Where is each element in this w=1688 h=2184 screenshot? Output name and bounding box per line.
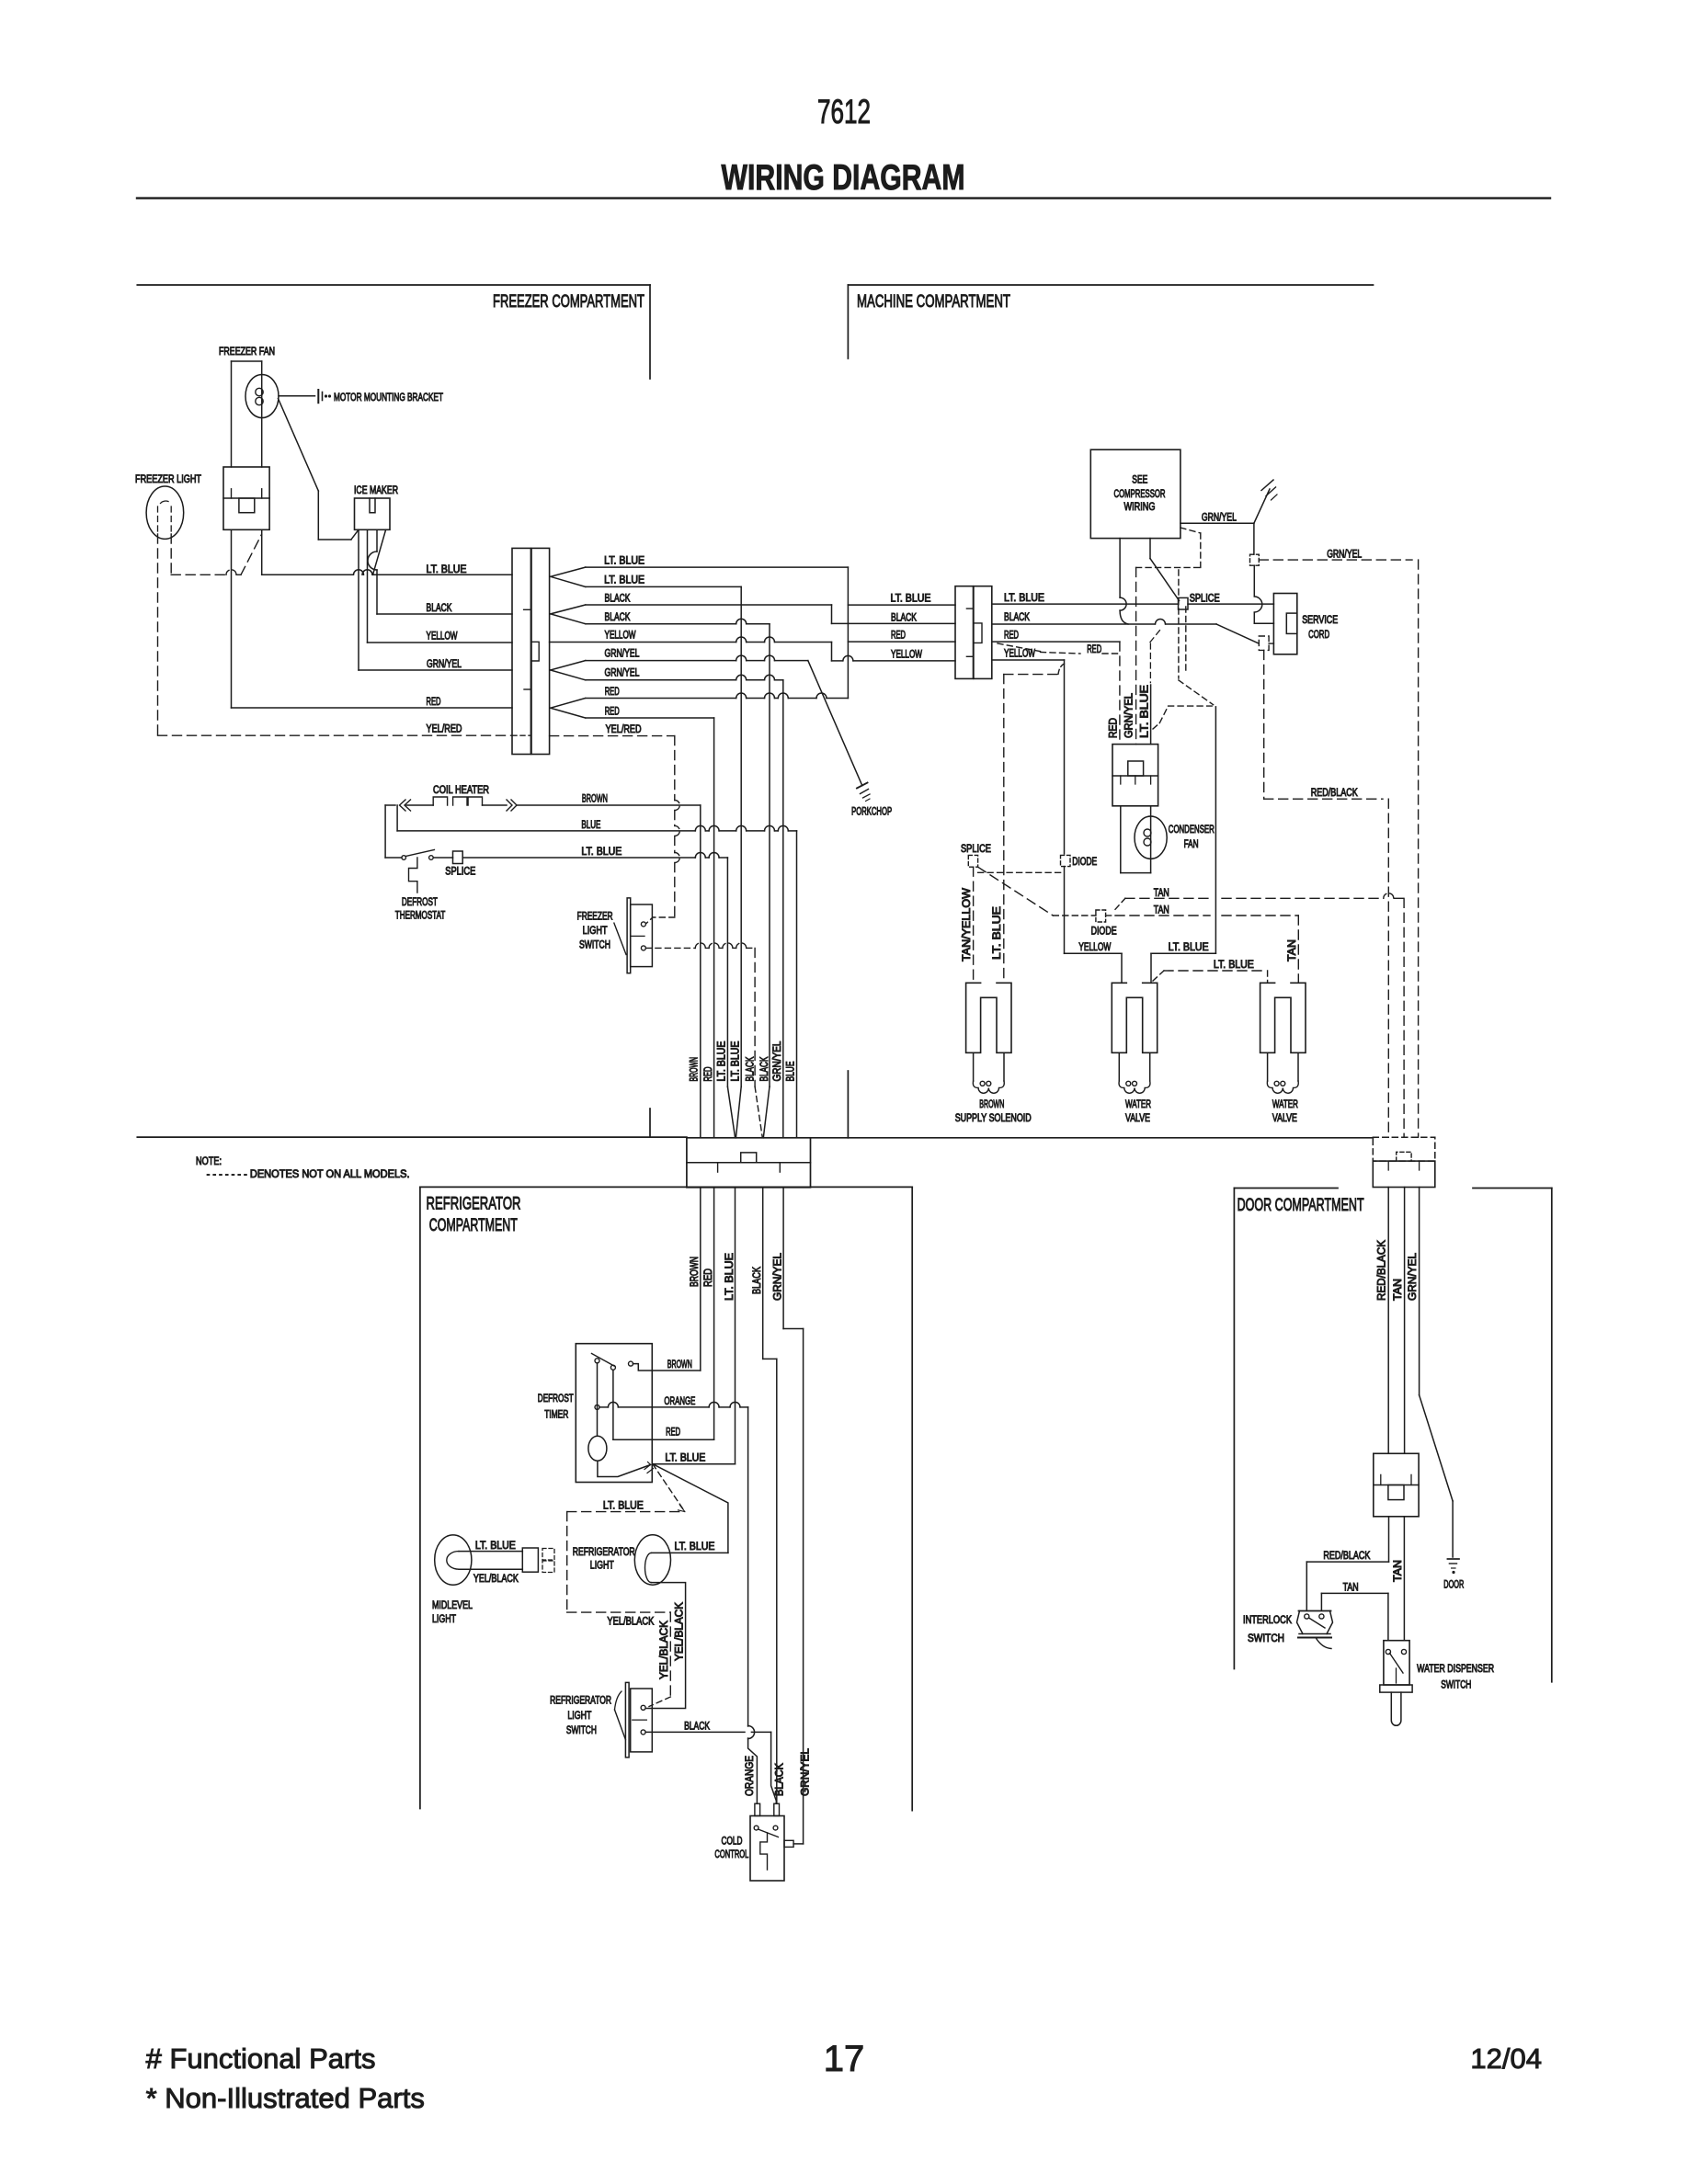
svg-text:LT. BLUE: LT. BLUE xyxy=(891,594,931,605)
dashed LT. BLUE link valve1 to valve2 xyxy=(1153,971,1164,981)
svg-text:WATER: WATER xyxy=(1125,1099,1151,1110)
defrost timer box xyxy=(576,1344,652,1483)
BLUE row xyxy=(396,805,398,831)
wire LT. BLUE column x=806 xyxy=(740,586,742,1086)
defrost thermostat terminal 2 xyxy=(429,856,434,860)
svg-text:BLACK: BLACK xyxy=(752,1267,763,1294)
BLACK wire switch to cold control xyxy=(645,1731,745,1733)
dashed LT. BLUE branch to solenoid xyxy=(1058,664,1065,675)
dashed splice to yellow column xyxy=(978,871,1062,873)
dashed stub near LT. BLUE label xyxy=(1149,643,1151,683)
svg-text:RED: RED xyxy=(427,697,441,708)
RED row to middle connector xyxy=(848,641,955,643)
svg-text:SPLICE: SPLICE xyxy=(1190,594,1220,605)
condenser fan motor xyxy=(1135,816,1167,859)
svg-text:RED: RED xyxy=(1109,718,1120,738)
svg-text:SEE: SEE xyxy=(1132,475,1147,486)
water dispenser switch xyxy=(1384,1641,1409,1685)
svg-text:TAN/YELLOW: TAN/YELLOW xyxy=(962,888,973,961)
ORANGE column to cold control xyxy=(747,1407,749,1726)
switch terminal B xyxy=(641,946,645,950)
svg-text:ICE MAKER: ICE MAKER xyxy=(354,485,398,496)
svg-text:GRN/YEL: GRN/YEL xyxy=(773,1252,784,1301)
freezer light bulb filament dashes xyxy=(161,501,169,504)
condenser fan loop xyxy=(1120,806,1122,873)
svg-text:REFRIGERATOR: REFRIGERATOR xyxy=(427,1195,521,1214)
diode 2 xyxy=(1096,910,1106,922)
svg-text:CONDENSER: CONDENSER xyxy=(1169,825,1215,836)
svg-text:MOTOR MOUNTING BRACKET: MOTOR MOUNTING BRACKET xyxy=(334,392,443,404)
svg-text:LT. BLUE: LT. BLUE xyxy=(604,556,644,567)
dispenser terminal 2 xyxy=(1401,1649,1406,1654)
dashed connector on GRN/YEL xyxy=(1250,554,1260,565)
svg-text:YEL/RED: YEL/RED xyxy=(606,724,642,735)
midlevel dashed mate 1 xyxy=(542,1549,554,1561)
svg-text:BLACK: BLACK xyxy=(775,1763,786,1796)
dashed connector service cord xyxy=(1259,636,1269,650)
dispenser plunger xyxy=(1391,1692,1401,1725)
timer switch arm xyxy=(592,1354,615,1367)
dispenser pedestal xyxy=(1380,1685,1412,1692)
door compartment connector (solid half) xyxy=(1373,1161,1435,1187)
center connector freezer-refrigerator xyxy=(687,1138,811,1188)
connector fork GRN/YEL pair xyxy=(551,661,586,670)
LT. BLUE upper row to machine border xyxy=(586,566,849,568)
svg-text:YELLOW: YELLOW xyxy=(1004,649,1035,660)
svg-text:* Non-Illustrated Parts: * Non-Illustrated Parts xyxy=(146,2082,425,2114)
svg-text:SWITCH: SWITCH xyxy=(1441,1680,1471,1691)
svg-text:RED: RED xyxy=(666,1428,680,1439)
dashed LT. BLUE alt wiring xyxy=(653,1464,685,1512)
wire GRN/YEL column x=852 xyxy=(782,680,784,1138)
light switch terminal 1 xyxy=(641,1705,645,1710)
svg-text:PORKCHOP: PORKCHOP xyxy=(851,807,892,818)
splice dashed box xyxy=(968,855,977,867)
svg-text:WATER: WATER xyxy=(1272,1099,1298,1110)
timer cam linkage xyxy=(598,1461,651,1476)
BROWN row with heater element xyxy=(385,804,395,806)
TAN row 2 dashed xyxy=(1115,915,1210,916)
RED row freezer xyxy=(232,707,513,709)
svg-text:LIGHT: LIGHT xyxy=(590,1561,614,1572)
svg-text:SWITCH: SWITCH xyxy=(1248,1633,1284,1644)
svg-text:- - - - - - - DENOTES NOT ON A: - - - - - - - DENOTES NOT ON ALL MODELS. xyxy=(207,1169,410,1180)
svg-text:GRN/YEL: GRN/YEL xyxy=(1202,513,1237,524)
splice box xyxy=(1179,597,1189,609)
cold control side pin xyxy=(784,1840,793,1847)
motor mounting bracket symbol xyxy=(317,390,319,403)
compressor relay connector xyxy=(1112,745,1158,806)
light switch plate xyxy=(625,1682,629,1757)
svg-text:LT. BLUE: LT. BLUE xyxy=(427,564,467,575)
switch terminal A xyxy=(641,922,645,927)
svg-text:VALVE: VALVE xyxy=(1125,1113,1150,1124)
svg-text:LT. BLUE: LT. BLUE xyxy=(603,1501,644,1512)
svg-text:RED/BLACK: RED/BLACK xyxy=(1323,1551,1370,1562)
GRN/YEL down to service cord xyxy=(1253,523,1255,554)
RED/BLACK wire to interlock switch xyxy=(1388,1517,1390,1562)
GRN/YEL from compressor box xyxy=(1180,522,1254,524)
dispenser arm xyxy=(1390,1654,1404,1674)
left vertical BROWN to LT.BLUE xyxy=(384,805,386,858)
svg-text:DOOR COMPARTMENT: DOOR COMPARTMENT xyxy=(1237,1196,1364,1215)
diode 1 xyxy=(1061,855,1071,866)
svg-text:RED: RED xyxy=(1087,644,1101,655)
freezer fan motor xyxy=(245,375,279,418)
connector fork RED pair xyxy=(551,699,586,709)
svg-text:REFRIGERATOR: REFRIGERATOR xyxy=(573,1547,635,1558)
wire BLUE column x=866.5 xyxy=(796,831,798,1138)
svg-text:WIRING DIAGRAM: WIRING DIAGRAM xyxy=(722,158,965,198)
title underline xyxy=(137,197,1550,199)
ice maker pin1 wire down to GRN/YEL row xyxy=(358,529,359,670)
svg-text:MIDLEVEL: MIDLEVEL xyxy=(432,1600,473,1611)
svg-text:RED/BLACK: RED/BLACK xyxy=(1311,788,1358,799)
svg-text:VALVE: VALVE xyxy=(1272,1113,1297,1124)
defrost thermostat terminal 1 xyxy=(402,856,406,860)
bulb socket arc xyxy=(645,1553,652,1582)
BROWN wire timer xyxy=(633,1364,701,1371)
interlock arm xyxy=(1309,1618,1326,1628)
svg-text:LT. BLUE: LT. BLUE xyxy=(581,847,622,858)
svg-text:COIL HEATER: COIL HEATER xyxy=(433,785,489,796)
RED wire timer xyxy=(612,1370,614,1439)
svg-text:LT. BLUE: LT. BLUE xyxy=(731,1041,742,1081)
svg-text:GRN/YEL: GRN/YEL xyxy=(1124,692,1135,738)
svg-text:LT. BLUE: LT. BLUE xyxy=(992,906,1003,960)
ORANGE wire timer xyxy=(599,1406,608,1408)
freezer fan connector xyxy=(223,467,269,529)
chassis ground hatching xyxy=(1261,480,1273,491)
door mid connector xyxy=(1374,1453,1419,1517)
YEL/BLACK wire bulb to switch xyxy=(645,1583,685,1709)
svg-text:YELLOW: YELLOW xyxy=(891,650,922,661)
wire compressor box down, hops LT. BLUE, joins BLACK row xyxy=(1119,539,1121,597)
GRN/YEL row freezer xyxy=(359,669,512,671)
svg-text:SERVICE: SERVICE xyxy=(1302,615,1338,626)
svg-text:WIRING: WIRING xyxy=(1124,502,1156,513)
door compartment connector (dashed half) xyxy=(1373,1137,1435,1161)
svg-text:NOTE:: NOTE: xyxy=(196,1156,222,1167)
svg-text:FREEZER LIGHT: FREEZER LIGHT xyxy=(135,474,201,485)
svg-text:LT. BLUE: LT. BLUE xyxy=(1214,960,1254,971)
BLACK row right of connector xyxy=(992,623,1155,625)
svg-text:GRN/YEL: GRN/YEL xyxy=(1408,1252,1419,1301)
dashed wire freezer light to YEL/RED xyxy=(157,534,159,735)
RED row right of connector xyxy=(992,641,1120,643)
svg-text:YELLOW: YELLOW xyxy=(605,631,636,642)
svg-text:YEL/BLACK: YEL/BLACK xyxy=(675,1602,686,1661)
fan coil loop 1 xyxy=(256,388,263,395)
cold control terminal 1 xyxy=(754,1826,758,1830)
GRN/YEL lower row, turns down at 852 xyxy=(586,679,736,681)
svg-text:TAN: TAN xyxy=(1393,1560,1404,1582)
ice maker pin3 wire down to BLACK row, hops diagonal xyxy=(376,529,378,552)
splice box on LT. BLUE xyxy=(453,851,463,864)
BLACK row freezer xyxy=(377,613,512,615)
timer terminal 1 xyxy=(595,1359,599,1363)
svg-text:TAN: TAN xyxy=(1343,1583,1359,1594)
svg-text:TIMER: TIMER xyxy=(544,1410,568,1421)
midlevel connector xyxy=(522,1548,538,1572)
svg-text:RED/BLACK: RED/BLACK xyxy=(1377,1240,1388,1301)
cold control box xyxy=(750,1816,784,1882)
cold control bellows xyxy=(760,1833,768,1870)
TAN/YELLOW dashed column xyxy=(973,867,975,983)
svg-text:RED: RED xyxy=(891,631,906,642)
svg-text:YELLOW: YELLOW xyxy=(427,631,458,643)
svg-text:BLACK: BLACK xyxy=(684,1722,710,1733)
connector fork LT. BLUE pair xyxy=(551,567,586,576)
wire BROWN column x=761.8 xyxy=(700,805,701,1138)
svg-text:MACHINE COMPARTMENT: MACHINE COMPARTMENT xyxy=(857,292,1010,312)
service cord connector xyxy=(1273,594,1296,654)
machine compartment middle connector xyxy=(955,586,974,679)
svg-text:BLACK: BLACK xyxy=(1004,612,1030,623)
defrost thermostat switch arm xyxy=(405,850,434,857)
svg-text:GRN/YEL: GRN/YEL xyxy=(605,668,640,679)
LT. BLUE lower row, turns down at 806 xyxy=(586,586,742,587)
GRN/YEL dashed to door compartment xyxy=(1259,559,1412,561)
LT. BLUE defrost row xyxy=(385,857,402,859)
svg-text:RED: RED xyxy=(703,1067,714,1082)
svg-text:DIODE: DIODE xyxy=(1072,857,1097,868)
LT. BLUE row right of connector to service cord xyxy=(992,603,1178,605)
svg-text:# Functional Parts: # Functional Parts xyxy=(146,2042,376,2075)
freezer compartment connector xyxy=(512,548,530,754)
dashed BLACK column x=821 xyxy=(754,948,756,1086)
YELLOW row right of connector xyxy=(992,659,1065,661)
dashed path compressor to GRN/YEL relay column xyxy=(1180,528,1201,533)
svg-text:BLACK: BLACK xyxy=(427,603,452,614)
svg-text:RED: RED xyxy=(605,687,620,698)
svg-text:COMPARTMENT: COMPARTMENT xyxy=(429,1216,518,1235)
dispenser terminal 1 xyxy=(1386,1649,1390,1654)
svg-text:17: 17 xyxy=(824,2039,865,2079)
compressor wiring box xyxy=(1090,449,1180,538)
svg-text:DEFROST: DEFROST xyxy=(538,1393,574,1405)
LT. BLUE row freezer xyxy=(262,574,353,575)
svg-text:LIGHT: LIGHT xyxy=(567,1711,591,1722)
timer terminal 3 xyxy=(629,1361,633,1366)
water valve 1 xyxy=(1112,983,1157,1052)
svg-text:TAN: TAN xyxy=(1393,1279,1404,1301)
timer cam arrows xyxy=(644,1462,654,1473)
svg-text:COLD: COLD xyxy=(722,1837,743,1848)
dashed RED branch xyxy=(998,643,1041,652)
timer terminal 2 xyxy=(610,1365,615,1370)
motor line (fan to ice maker) xyxy=(318,539,351,540)
fan coil loop 2 xyxy=(256,397,263,404)
RED column to defrost timer xyxy=(713,1188,715,1439)
BROWN column to defrost timer xyxy=(700,1188,701,1371)
wire fan to motor mounting bracket xyxy=(279,395,315,397)
YELLOW wire down to diode and water valve xyxy=(1064,660,1066,854)
wire fan connector pin2 down to LT. BLUE row xyxy=(261,529,263,574)
freezer light bulb xyxy=(146,486,184,539)
svg-text:LT. BLUE: LT. BLUE xyxy=(717,1041,728,1081)
dashed wire light switch to BLACK column xyxy=(645,947,695,949)
svg-text:YEL/BLACK: YEL/BLACK xyxy=(607,1617,654,1628)
svg-text:SWITCH: SWITCH xyxy=(566,1725,597,1736)
svg-text:LT. BLUE: LT. BLUE xyxy=(1004,593,1044,604)
svg-text:BROWN: BROWN xyxy=(690,1257,701,1287)
svg-text:SWITCH: SWITCH xyxy=(579,940,610,951)
svg-text:RED: RED xyxy=(1004,631,1019,642)
YEL/RED dashed right of connector xyxy=(550,735,675,737)
condenser coil loop 2 xyxy=(1144,838,1151,846)
water valve 2 xyxy=(1260,983,1306,1052)
svg-text:GRN/YEL: GRN/YEL xyxy=(605,649,640,660)
porkchop ground diagonal xyxy=(808,661,862,786)
GRN/YEL wire down door xyxy=(1419,1188,1420,1395)
BLACK upper row, jogs down at 904.5 xyxy=(586,604,832,606)
svg-text:RED: RED xyxy=(703,1268,714,1287)
light switch body xyxy=(631,1689,653,1752)
YELLOW row through connector xyxy=(550,642,736,643)
svg-text:ORANGE: ORANGE xyxy=(664,1396,695,1407)
LT. BLUE column to timer V xyxy=(735,1188,736,1464)
RED/BLACK wire down door xyxy=(1387,1188,1389,1454)
cold control arm xyxy=(758,1829,779,1837)
dashed LT. BLUE to relay xyxy=(1169,705,1213,707)
midlevel bulb socket arc xyxy=(447,1552,459,1570)
svg-text:LT. BLUE: LT. BLUE xyxy=(665,1453,705,1464)
svg-text:BLUE: BLUE xyxy=(581,820,600,831)
brown supply solenoid xyxy=(966,983,1011,1052)
svg-text:DOOR: DOOR xyxy=(1443,1580,1464,1591)
svg-text:FREEZER COMPARTMENT: FREEZER COMPARTMENT xyxy=(493,292,644,312)
svg-text:LT. BLUE: LT. BLUE xyxy=(475,1541,516,1552)
door compartment border xyxy=(1234,1188,1338,1189)
freezer compartment border xyxy=(137,284,650,286)
midlevel light bulb xyxy=(435,1535,472,1585)
porkchop ground symbol xyxy=(857,783,868,789)
dashed splice diagonal to diode 2 xyxy=(978,867,1054,916)
BLACK column (jog) xyxy=(762,1188,764,1359)
LT. BLUE water valve wire xyxy=(1150,953,1152,983)
svg-text:GRN/YEL: GRN/YEL xyxy=(801,1747,812,1796)
GRN/YEL to chassis ground xyxy=(1254,489,1270,523)
connector fork BLACK pair xyxy=(551,605,586,614)
svg-text:YEL/RED: YEL/RED xyxy=(427,724,462,735)
wire BLACK column x=837 xyxy=(769,624,770,1086)
svg-text:LIGHT: LIGHT xyxy=(432,1614,456,1625)
svg-text:ORANGE: ORANGE xyxy=(745,1756,756,1796)
LT. BLUE row to middle connector xyxy=(848,604,955,606)
svg-text:SPLICE: SPLICE xyxy=(445,867,475,878)
svg-text:CORD: CORD xyxy=(1308,630,1329,641)
RED lower row, turns down at 776.6 xyxy=(586,717,714,719)
refrigerator light bulb xyxy=(634,1535,670,1585)
YELLOW row right of jog, hops border xyxy=(832,660,843,662)
LT. BLUE long vertical to water valve xyxy=(1215,707,1216,953)
svg-text:TAN: TAN xyxy=(1154,905,1169,916)
svg-text:DIODE: DIODE xyxy=(1091,927,1117,938)
V merge BLACK pair xyxy=(755,1086,762,1138)
GRN/YEL column (jog) xyxy=(782,1188,784,1329)
BLACK lower row, hops 806, turns down at 837 xyxy=(586,623,736,625)
RED upper row, hops columns and porkchop diagonal xyxy=(586,698,736,700)
svg-text:BLACK: BLACK xyxy=(746,1056,757,1081)
light switch terminal 2 xyxy=(641,1730,645,1735)
timer motor xyxy=(588,1436,607,1461)
timer motor wire xyxy=(597,1363,599,1436)
svg-text:LT. BLUE: LT. BLUE xyxy=(1169,942,1209,953)
defrost thermostat bellows xyxy=(409,858,417,893)
TAN wire down door xyxy=(1404,1188,1406,1454)
V merge LT. BLUE pair xyxy=(727,1086,735,1138)
wire fan connector pin1 down to RED row xyxy=(231,529,233,708)
dashed wire freezer light to fan connector xyxy=(170,534,172,574)
svg-text:COMPRESSOR: COMPRESSOR xyxy=(1114,489,1166,500)
svg-text:BLACK: BLACK xyxy=(759,1056,770,1081)
GRN/YEL diagonal to door contact xyxy=(1420,1395,1454,1501)
condenser coil loop 1 xyxy=(1144,829,1151,836)
svg-text:GRN/YEL: GRN/YEL xyxy=(772,1041,783,1082)
dashed RED column to relay xyxy=(1119,642,1121,745)
svg-text:INTERLOCK: INTERLOCK xyxy=(1243,1615,1292,1626)
svg-text:BLUE: BLUE xyxy=(786,1061,797,1081)
wire LT. BLUE defrost column x=791.4 xyxy=(726,858,728,1086)
refrigerator light wire xyxy=(653,1464,728,1553)
svg-text:GRN/YEL: GRN/YEL xyxy=(1327,550,1362,561)
svg-text:SPLICE: SPLICE xyxy=(961,844,991,855)
ice maker pin 1 diagonal to motor line xyxy=(351,529,359,540)
TAN wire interlock to dispenser xyxy=(1321,1592,1388,1594)
timer terminal 4 xyxy=(595,1405,599,1409)
GRN/YEL upper row, hops, becomes porkchop diagonal xyxy=(586,660,736,662)
light switch lever xyxy=(615,1710,626,1740)
svg-text:BROWN: BROWN xyxy=(667,1359,692,1371)
cold control terminal 2 xyxy=(773,1826,778,1830)
svg-text:FREEZER FAN: FREEZER FAN xyxy=(219,347,275,358)
svg-text:BLACK: BLACK xyxy=(891,613,917,624)
svg-text:7612: 7612 xyxy=(817,93,871,131)
YEL/RED dashed down and to freezer light switch xyxy=(674,736,676,801)
TAN row 1 dashed xyxy=(1115,898,1125,909)
svg-text:WATER DISPENSER: WATER DISPENSER xyxy=(1417,1664,1494,1675)
ice maker pin4 diagonal to LT. BLUE row xyxy=(373,529,386,574)
svg-text:LT. BLUE: LT. BLUE xyxy=(604,575,644,586)
midlevel dashed mate 2 xyxy=(542,1561,554,1573)
svg-text:BROWN: BROWN xyxy=(979,1099,1004,1110)
svg-text:TAN: TAN xyxy=(1154,888,1169,899)
svg-text:BROWN: BROWN xyxy=(582,794,608,805)
svg-text:BLACK: BLACK xyxy=(605,594,631,605)
svg-text:12/04: 12/04 xyxy=(1470,2042,1542,2075)
TAN wire to water dispenser switch xyxy=(1403,1517,1405,1641)
interlock terminal 1 xyxy=(1305,1614,1309,1619)
svg-text:GRN/YEL: GRN/YEL xyxy=(427,659,462,670)
svg-text:BLACK: BLACK xyxy=(605,612,631,623)
svg-text:DEFROST: DEFROST xyxy=(402,897,438,908)
svg-text:FAN: FAN xyxy=(1184,839,1199,850)
svg-text:CONTROL: CONTROL xyxy=(714,1849,748,1860)
svg-text:YEL/BLACK: YEL/BLACK xyxy=(659,1621,670,1679)
svg-text:LT. BLUE: LT. BLUE xyxy=(1140,685,1151,738)
cold control pins xyxy=(755,1803,760,1815)
svg-text:TAN: TAN xyxy=(1287,939,1298,961)
wire compressor box to splice xyxy=(1149,539,1151,559)
svg-text:LT. BLUE: LT. BLUE xyxy=(675,1541,715,1553)
svg-text:THERMOSTAT: THERMOSTAT xyxy=(395,911,446,922)
LT. BLUE wire to timer V point xyxy=(653,1463,736,1465)
ice maker body xyxy=(355,498,391,529)
svg-text:YELLOW: YELLOW xyxy=(1078,942,1111,953)
interlock terminal 2 xyxy=(1319,1614,1324,1619)
BLACK diagonal to service cord xyxy=(1216,624,1259,643)
